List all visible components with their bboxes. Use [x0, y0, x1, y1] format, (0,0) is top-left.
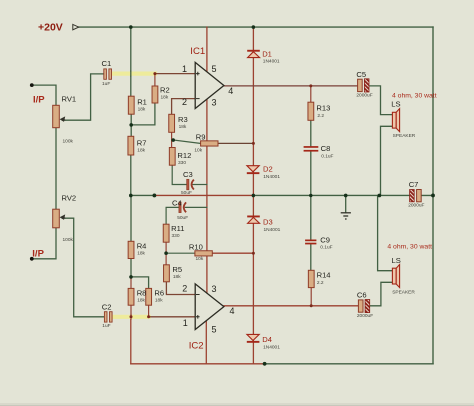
capacitor C6 electrolytic: [358, 300, 369, 313]
svg-text:2.2: 2.2: [317, 113, 324, 119]
capacitor C3: [187, 179, 194, 190]
svg-text:330: 330: [172, 233, 180, 239]
wire C5 to speaker top: [369, 86, 392, 115]
junction R4 R8 R6: [129, 275, 133, 279]
svg-text:4 ohm, 30 watt: 4 ohm, 30 watt: [392, 92, 437, 99]
potentiometer RV2: [53, 209, 66, 228]
wire RV2 wiper to C2: [63, 218, 105, 317]
svg-text:R6: R6: [154, 288, 164, 297]
wire C9 bottom to R14: [310, 244, 312, 270]
wire R8 bottom to signal node: [130, 305, 132, 317]
svg-text:10k: 10k: [196, 256, 204, 262]
wire bottom rail green segment: [265, 363, 433, 365]
resistor R12: [169, 148, 175, 166]
svg-text:D3: D3: [263, 218, 273, 227]
svg-text:1: 1: [182, 64, 187, 74]
wire junction to R10 left lead: [166, 252, 195, 254]
junction feedback R9: [252, 142, 255, 145]
svg-text:2000uF: 2000uF: [408, 203, 424, 209]
svg-text:R10: R10: [189, 243, 203, 252]
svg-text:3: 3: [212, 284, 217, 294]
junction mid rail diode line: [252, 194, 256, 198]
junction C7 right rail: [431, 194, 435, 198]
diode D1: [247, 50, 260, 58]
wire signal to IC1 pin1: [155, 73, 195, 75]
junction R14 output: [310, 304, 313, 307]
wire R1 bottom to R2 bottom link: [131, 103, 155, 125]
svg-text:LS: LS: [392, 256, 401, 265]
svg-text:LS: LS: [391, 100, 400, 109]
wire R7 bottom to mid rail: [130, 155, 132, 195]
svg-text:R12: R12: [177, 151, 191, 160]
svg-text:RV2: RV2: [62, 194, 77, 203]
wire mid rail down to speaker2 top: [378, 195, 393, 270]
svg-text:4: 4: [230, 306, 235, 316]
svg-text:100k: 100k: [63, 139, 74, 145]
capacitor C8: [304, 146, 319, 151]
junction top rail D1: [252, 25, 256, 29]
wire R9 right lead to feedback line: [218, 142, 254, 144]
svg-text:R7: R7: [137, 138, 147, 147]
resistor R14: [308, 270, 314, 287]
wire R3 R12 junction link: [171, 132, 173, 147]
resistor R4: [128, 241, 134, 258]
svg-text:SPEAKER: SPEAKER: [392, 289, 415, 295]
wire IC1 pin3 down to IC2 pin3: [206, 99, 208, 292]
resistor R3: [169, 114, 175, 132]
svg-text:+20V: +20V: [38, 22, 63, 34]
wire ground stub: [345, 195, 347, 212]
junction feedback R10: [252, 252, 255, 255]
svg-text:R9: R9: [196, 132, 206, 141]
wire input 1 to RV1 top: [32, 85, 56, 105]
wire diode line D1 D2: [252, 27, 254, 195]
svg-text:18k: 18k: [137, 250, 145, 256]
junction R11 R5 R10: [164, 251, 168, 255]
wire R12 to C3 left plate: [172, 165, 187, 184]
svg-text:IC1: IC1: [190, 46, 205, 57]
junction bottom rail net change: [263, 362, 267, 366]
svg-text:4 ohm, 30 watt: 4 ohm, 30 watt: [387, 243, 432, 250]
wire C3 right plate to pin3 line: [193, 184, 207, 186]
junction mid rail R7 R4: [129, 194, 133, 198]
svg-text:I/P: I/P: [33, 95, 45, 106]
svg-text:R5: R5: [172, 265, 182, 274]
svg-text:R1: R1: [137, 97, 147, 106]
svg-text:1N4001: 1N4001: [263, 59, 280, 65]
svg-text:18k: 18k: [173, 274, 181, 280]
junction mid rail net change: [153, 194, 157, 198]
wire IC1 output to C5: [224, 85, 358, 87]
svg-text:5: 5: [212, 324, 217, 334]
svg-text:0.1uF: 0.1uF: [320, 245, 332, 251]
svg-text:C5: C5: [356, 70, 366, 79]
components drawn here: [30, 24, 435, 365]
svg-text:RV1: RV1: [62, 95, 77, 104]
resistor R10: [195, 251, 212, 256]
svg-text:50uF: 50uF: [181, 190, 192, 196]
svg-text:I/P: I/P: [32, 248, 44, 259]
wire mid rail right green segment: [253, 194, 409, 196]
wire speaker2 bottom to C6: [370, 282, 393, 306]
svg-text:R8: R8: [137, 288, 147, 297]
svg-text:C2: C2: [102, 302, 112, 311]
svg-text:R13: R13: [316, 103, 330, 112]
text drawn here: [32, 22, 436, 352]
svg-text:IC2: IC2: [189, 340, 204, 351]
svg-text:1N4001: 1N4001: [263, 174, 280, 180]
wire R2 top stub: [154, 74, 156, 86]
junction signal R2: [153, 72, 156, 75]
svg-text:100k: 100k: [63, 237, 74, 243]
diode D3: [247, 216, 260, 224]
wire R10 right lead to feedback line: [213, 252, 254, 254]
svg-text:18k: 18k: [138, 107, 146, 113]
svg-text:D4: D4: [262, 335, 272, 344]
junction mid rail C8 C9: [309, 194, 312, 197]
wire R5 to IC2 pin2: [166, 282, 195, 295]
capacitor C1: [104, 69, 112, 79]
wire C7 right plate to right rail: [421, 194, 433, 196]
svg-text:18k: 18k: [137, 147, 145, 153]
svg-text:0.1uF: 0.1uF: [321, 153, 333, 159]
resistor R2: [152, 86, 158, 103]
op-amp IC2: [195, 284, 224, 330]
resistor R7: [128, 136, 134, 155]
svg-text:2: 2: [182, 283, 187, 293]
wire R3 junction diagonal to R9: [172, 140, 200, 144]
input terminal node bottom: [30, 257, 34, 261]
wire mid rail left green segment: [130, 194, 154, 196]
wire speaker1 bottom to mid rail: [381, 126, 393, 195]
svg-text:C4: C4: [172, 199, 182, 208]
wire +20V top rail: [79, 26, 434, 28]
wire IC2 pin5 to bottom rail: [205, 321, 207, 364]
speaker LS1: [392, 109, 399, 132]
junction top rail R1: [129, 25, 133, 29]
wire IC1 pin5 supply: [206, 27, 208, 72]
wire mid rail to C9 top: [310, 195, 312, 239]
wire signal to IC2 pin1: [149, 316, 196, 318]
wires drawn here: [32, 27, 433, 364]
power terminal +20V arrow: [73, 24, 79, 29]
wire input 2 to RV2 bottom: [32, 228, 56, 259]
svg-text:2000uF: 2000uF: [356, 93, 372, 99]
wire C4 left plate to R11 top: [166, 207, 180, 224]
svg-text:1N4001: 1N4001: [263, 344, 280, 350]
wire R1 line crossing yellow highlight: [130, 71, 132, 76]
wire mid rail to R4 top: [130, 195, 132, 241]
svg-text:2.2: 2.2: [317, 280, 324, 286]
resistor R5: [164, 265, 170, 282]
svg-text:C8: C8: [321, 144, 331, 153]
svg-text:10k: 10k: [194, 148, 202, 154]
svg-text:1uF: 1uF: [102, 323, 110, 329]
resistor R13: [308, 102, 314, 120]
wire R1 junction down to R7: [130, 125, 132, 136]
input terminal node top: [30, 83, 34, 87]
svg-text:R3: R3: [178, 115, 188, 124]
svg-text:C6: C6: [357, 290, 367, 299]
svg-text:2: 2: [182, 97, 187, 107]
junction mid rail speakers: [378, 194, 382, 198]
wire R6 bottom stub: [148, 305, 150, 317]
wire R8 node down to bottom rail: [130, 317, 132, 364]
wire IC2 output to C6: [224, 305, 359, 307]
capacitor C5 electrolytic: [358, 79, 369, 92]
resistor R8: [128, 288, 134, 305]
wire R14 bottom to IC2 output: [310, 288, 312, 306]
svg-text:C7: C7: [409, 180, 419, 189]
wire R4 bottom junction to R8 and R6: [131, 258, 149, 288]
wire RV1 bottom to RV2 top: [55, 128, 57, 210]
svg-text:5: 5: [212, 64, 217, 74]
resistor R11: [163, 224, 169, 242]
svg-text:R14: R14: [317, 271, 331, 280]
svg-text:D1: D1: [262, 49, 272, 58]
svg-text:C9: C9: [320, 235, 330, 244]
potentiometer RV1: [53, 105, 66, 127]
wire R8 line crossing yellow highlight: [130, 315, 132, 320]
svg-text:330: 330: [178, 160, 186, 166]
junction R13 output: [309, 84, 312, 87]
op-amp IC1: [195, 62, 224, 108]
svg-text:2000uF: 2000uF: [357, 313, 373, 319]
wire right rail vertical: [432, 27, 434, 364]
svg-text:1uF: 1uF: [102, 81, 110, 87]
capacitor C9: [305, 240, 316, 245]
diode D4: [247, 334, 260, 342]
wire diode line D3 D4: [252, 195, 254, 363]
svg-text:R4: R4: [137, 241, 147, 250]
junction R3 R12 R9: [171, 138, 175, 142]
resistor R6: [146, 288, 152, 305]
wire R11 R5 R10 junction: [165, 242, 167, 265]
junction mid rail ground: [344, 194, 348, 198]
svg-text:18k: 18k: [155, 297, 163, 303]
wire IC1 pin2 to R3: [172, 99, 196, 115]
capacitor C4: [179, 202, 186, 213]
wire mid rail red segment: [154, 194, 253, 196]
wire C1 to pin1 yellow highlight: [112, 71, 155, 75]
wire top rail to R1: [130, 27, 132, 96]
junction signal R8: [130, 315, 133, 318]
svg-text:18k: 18k: [161, 94, 169, 100]
svg-text:4: 4: [228, 86, 233, 96]
svg-text:50uF: 50uF: [177, 215, 188, 221]
speaker LS2: [392, 265, 399, 288]
wire R13 top to output: [310, 86, 312, 102]
svg-text:C3: C3: [183, 170, 193, 179]
junction R1 R2 bottom: [129, 123, 133, 127]
svg-text:1: 1: [183, 318, 188, 328]
svg-text:R11: R11: [171, 224, 184, 233]
svg-text:18k: 18k: [137, 297, 145, 303]
wire bottom rail red segment: [131, 363, 265, 365]
capacitor C2: [104, 312, 112, 322]
wire RV1 wiper to C1: [63, 74, 104, 120]
wire C4 right plate to pin3 line: [185, 206, 207, 208]
wire C8 bottom to mid rail: [310, 152, 312, 196]
svg-text:D2: D2: [263, 165, 273, 174]
diode D2: [247, 166, 260, 174]
wire R8 top stub: [130, 277, 132, 289]
svg-text:SPEAKER: SPEAKER: [393, 133, 416, 139]
svg-text:C1: C1: [102, 59, 112, 68]
wire R13 bottom to C8: [310, 120, 312, 146]
svg-text:R2: R2: [160, 85, 170, 94]
wire C2 to pin1 yellow highlight: [112, 315, 148, 319]
resistor R9: [201, 141, 218, 146]
ground symbol: [341, 213, 351, 219]
svg-text:18k: 18k: [179, 124, 187, 130]
junction signal R6: [147, 315, 150, 318]
capacitor C7 electrolytic: [410, 190, 422, 202]
svg-text:3: 3: [212, 98, 217, 108]
resistor R1: [128, 96, 134, 114]
svg-text:1N4001: 1N4001: [264, 227, 281, 233]
